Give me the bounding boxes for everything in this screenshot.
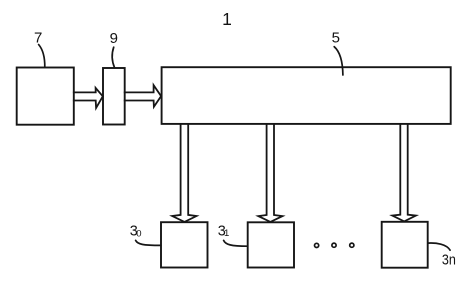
ellipsis dot 3 — [350, 243, 354, 247]
block 9 — [103, 68, 125, 125]
arrow from 5 down to 3_0 — [172, 124, 196, 222]
ellipsis dot 1 — [315, 243, 319, 247]
arrow from 5 down to 3_1 — [258, 124, 282, 222]
svg-text:3n: 3n — [442, 252, 456, 268]
svg-text:9: 9 — [110, 30, 118, 47]
arrow from 5 down to 3_n — [392, 124, 416, 221]
ellipsis dot 2 — [332, 243, 336, 247]
arrow from 9 to 5 — [125, 85, 161, 107]
arrow from 7 to 9 — [74, 88, 103, 108]
leader line for label 9 — [112, 47, 114, 68]
block 7 — [17, 68, 74, 125]
leader line for label 3_n — [428, 243, 450, 250]
leader line for label 3_1 — [224, 240, 248, 246]
block 3_1 — [248, 222, 294, 267]
svg-text:1: 1 — [222, 9, 232, 29]
leader line for label 5 — [334, 47, 343, 75]
svg-text:1: 1 — [224, 228, 229, 239]
block 3_0 — [161, 222, 208, 267]
svg-text:5: 5 — [332, 29, 340, 46]
leader line for label 3_0 — [136, 240, 161, 245]
svg-text:0: 0 — [136, 229, 141, 240]
block 3_n — [382, 222, 428, 268]
svg-text:7: 7 — [34, 29, 42, 46]
leader line for label 7 — [39, 45, 45, 68]
block 5 — [162, 67, 451, 124]
